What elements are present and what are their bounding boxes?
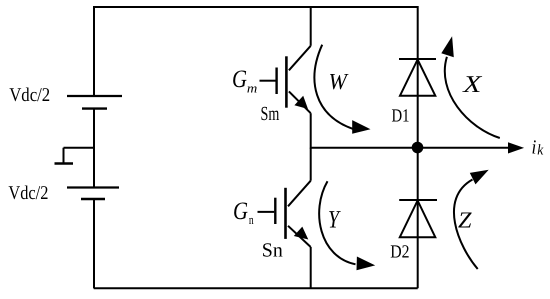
arrow Z head: [470, 170, 489, 185]
svg-text:m: m: [247, 80, 257, 95]
svg-text:W: W: [329, 69, 349, 94]
wire mid output line: [311, 147, 510, 149]
wire middle leg upper (collector lead of Sm): [310, 6, 312, 46]
svg-text:Y: Y: [328, 206, 341, 233]
transistor Sn collector diagonal: [288, 181, 311, 207]
transistor Sn emitter arrowhead: [294, 227, 309, 240]
transistor Sn body bar: [284, 188, 287, 239]
arrow W head: [352, 120, 370, 134]
wire Sm emitter vertical to mid node: [310, 113, 312, 149]
diode D2 triangle: [400, 201, 436, 238]
svg-text:Vdc/2: Vdc/2: [9, 85, 50, 106]
wire ground tap vertical: [63, 148, 65, 164]
node dot (output junction): [412, 142, 424, 154]
transistor Sm collector diagonal: [289, 46, 311, 71]
svg-text:G: G: [233, 198, 248, 225]
battery B1 upper Vdc/2 positive plate: [67, 95, 122, 97]
svg-text:Sn: Sn: [262, 240, 283, 262]
arrow ik head: [508, 142, 524, 153]
wire Sn emitter vertical to bottom rail: [310, 247, 312, 288]
svg-text:Z: Z: [458, 207, 472, 232]
battery B1 upper Vdc/2 negative plate: [82, 107, 107, 109]
transistor Sn gate lead: [258, 211, 275, 213]
svg-text:G: G: [232, 66, 247, 93]
arrow Y head: [357, 257, 376, 271]
svg-text:k: k: [537, 142, 543, 158]
ground symbol bar: [55, 162, 74, 164]
svg-text:n: n: [249, 212, 254, 227]
wire middle leg (mid node to Sn collector): [310, 148, 312, 181]
transistor Sm gate lead: [260, 80, 276, 82]
diode D2 cathode bar: [399, 199, 437, 201]
svg-text:D1: D1: [392, 107, 410, 127]
wire left rail upper segment: [93, 6, 95, 96]
diode D1 cathode bar: [399, 58, 436, 60]
arrow Y arc: [319, 181, 355, 264]
arrow X arc: [445, 57, 500, 138]
svg-text:Sm: Sm: [261, 103, 280, 125]
wire left rail between batteries: [93, 109, 95, 188]
svg-text:i: i: [532, 136, 537, 158]
transistor Sm emitter arrowhead: [294, 96, 308, 109]
svg-text:X: X: [462, 72, 483, 98]
transistor Sn gate bar: [274, 198, 276, 224]
battery B2 lower Vdc/2 negative plate: [81, 198, 105, 200]
arrow Z arc: [454, 180, 478, 270]
transistor Sm gate bar: [275, 68, 277, 95]
svg-text:Vdc/2: Vdc/2: [8, 183, 48, 204]
battery B2 lower Vdc/2 positive plate: [67, 186, 119, 188]
wire left rail lower segment: [93, 199, 95, 288]
wire ground tap horizontal: [64, 147, 95, 149]
transistor Sn emitter diagonal: [288, 226, 311, 247]
arrow X head: [441, 36, 454, 57]
diode D1 triangle: [400, 60, 435, 96]
transistor Sm body bar: [285, 56, 288, 107]
arrow W arc: [314, 45, 353, 129]
wire right rail (diode leg): [417, 6, 419, 288]
wire bottom rail (negative bus): [94, 287, 418, 289]
transistor Sm emitter diagonal: [289, 91, 311, 113]
wire top rail (positive bus): [94, 6, 418, 8]
svg-text:D2: D2: [390, 243, 409, 263]
